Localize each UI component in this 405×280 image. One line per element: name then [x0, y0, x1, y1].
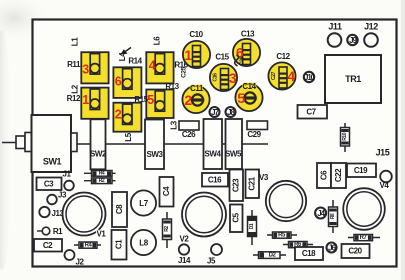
capacitor C19 [347, 164, 376, 178]
svg-text:R4: R4 [85, 242, 93, 248]
svg-text:J1: J1 [63, 170, 72, 179]
capacitor C1 [112, 230, 127, 260]
resistor R10 [341, 123, 350, 152]
pad J12 [364, 22, 378, 47]
svg-text:3: 3 [229, 70, 237, 86]
pad J14 [178, 244, 191, 265]
svg-text:R7: R7 [360, 235, 368, 241]
transistor V4 [380, 171, 392, 190]
svg-text:C22: C22 [334, 168, 343, 182]
resistor R5 [267, 232, 297, 238]
svg-text:D2: D2 [269, 252, 277, 258]
svg-text:SW1: SW1 [43, 157, 62, 167]
switch SW1 jack bushing [25, 133, 32, 152]
svg-text:C5: C5 [232, 212, 241, 222]
svg-text:L8: L8 [139, 239, 148, 248]
pad J9 [347, 35, 357, 45]
svg-text:C29: C29 [247, 130, 261, 139]
resistor R1 [37, 227, 63, 236]
pad J13 [39, 207, 64, 218]
svg-text:J5: J5 [207, 257, 216, 266]
svg-text:R15: R15 [134, 95, 148, 104]
capacitor C16 [202, 173, 228, 187]
trimmer capacitor C15 (highlight 3) [210, 64, 237, 91]
resistor R6 [283, 242, 313, 248]
trimmer capacitor C12 (highlight 4) [268, 62, 295, 89]
svg-text:C11: C11 [190, 84, 204, 93]
svg-text:C28: C28 [240, 56, 246, 65]
svg-text:J10: J10 [304, 73, 316, 82]
svg-text:3: 3 [82, 63, 89, 77]
svg-text:L3: L3 [170, 120, 179, 129]
svg-text:J3: J3 [58, 191, 67, 200]
pad J2 [65, 250, 85, 267]
coil can V3 [266, 181, 306, 221]
svg-text:SW4: SW4 [205, 150, 222, 159]
svg-text:L6: L6 [153, 36, 162, 45]
svg-text:R8: R8 [330, 213, 336, 219]
svg-text:C20: C20 [348, 247, 362, 256]
svg-text:R2: R2 [99, 178, 105, 184]
capacitor C21 [246, 170, 260, 199]
resistor R8 [329, 200, 338, 233]
capacitor C20 [342, 244, 370, 258]
coil block R13 (highlight 5) [146, 90, 173, 119]
svg-text:5: 5 [237, 90, 245, 106]
svg-text:J14: J14 [178, 256, 191, 265]
svg-text:C25: C25 [181, 66, 188, 78]
coil can (bottom right) [343, 188, 385, 230]
resistor below SW2 (lower) [84, 178, 116, 184]
transistor V1 [63, 193, 107, 239]
svg-text:L2: L2 [71, 84, 80, 93]
capacitor C23 [230, 170, 244, 202]
pad J3 [47, 191, 67, 205]
wire horizontal bus y=144 [33, 143, 268, 145]
svg-text:C3: C3 [44, 179, 54, 188]
capacitor C3 [37, 178, 62, 191]
pad J5 [207, 244, 222, 266]
svg-text:5: 5 [147, 93, 154, 107]
svg-text:C16: C16 [213, 73, 219, 82]
trimmer capacitor C11 (highlight 2) [182, 86, 209, 113]
svg-text:L5: L5 [124, 132, 133, 141]
svg-text:C16: C16 [208, 176, 222, 185]
svg-text:R1: R1 [53, 227, 63, 236]
switch SW1 body [32, 115, 72, 172]
inductor L4 label with arrow [118, 48, 131, 62]
inductor L8 [131, 230, 156, 255]
svg-text:1: 1 [82, 93, 89, 107]
svg-text:C7: C7 [306, 108, 316, 117]
switch SW1 jack lead [16, 136, 25, 149]
svg-text:C26: C26 [182, 130, 196, 139]
switch SW2 [90, 119, 107, 169]
svg-text:C12: C12 [276, 52, 290, 61]
svg-text:4: 4 [287, 68, 295, 84]
resistor R4 [74, 242, 101, 248]
capacitor C6 [317, 163, 331, 188]
pad J11 [328, 22, 342, 47]
svg-text:C6: C6 [320, 170, 329, 180]
svg-text:2: 2 [115, 108, 122, 122]
svg-text:V4: V4 [380, 181, 390, 190]
capacitor C29 [247, 121, 268, 139]
capacitor C7 [298, 105, 328, 119]
svg-text:C14: C14 [242, 82, 256, 91]
pad J8 [226, 107, 236, 117]
svg-text:C27: C27 [271, 71, 277, 80]
diode D2 [253, 252, 286, 259]
switch SW5 [225, 119, 242, 169]
resistor R2 [163, 212, 172, 248]
svg-text:R11: R11 [67, 60, 81, 69]
svg-text:J15: J15 [376, 148, 390, 158]
svg-text:1: 1 [184, 47, 192, 63]
svg-text:R2: R2 [164, 226, 170, 232]
svg-text:TR1: TR1 [345, 74, 361, 84]
transistor V2 [180, 193, 226, 244]
svg-text:2: 2 [184, 92, 192, 108]
capacitor C5 [230, 205, 243, 233]
svg-text:J11: J11 [328, 22, 342, 32]
svg-text:SW2: SW2 [90, 150, 107, 159]
pad J10 [304, 72, 316, 82]
svg-text:C4: C4 [162, 186, 171, 196]
switch SW4 [204, 119, 223, 169]
resistor below SW2 (upper) [84, 171, 116, 177]
svg-text:R12: R12 [67, 94, 81, 103]
svg-text:C23: C23 [232, 178, 241, 192]
svg-text:SW3: SW3 [147, 150, 164, 159]
pad J6 [327, 243, 337, 253]
capacitor C4 [160, 177, 174, 207]
resistor R7 [348, 235, 380, 241]
trimmer capacitor C10 (highlight 1) [183, 41, 210, 68]
coil block L5/R15 (highlight 2) [113, 103, 141, 132]
capacitor C22 [331, 163, 346, 188]
inductor L7 [131, 190, 156, 215]
svg-text:R4: R4 [99, 171, 105, 177]
svg-text:SW5: SW5 [225, 150, 242, 159]
trimmer capacitor C14 (highlight 5) [235, 84, 262, 111]
coil block L4/R14 (highlight 6) [113, 67, 141, 98]
capacitor C18 [295, 247, 323, 260]
pad J1 [63, 170, 74, 191]
coil block L2/R12 (highlight 1) [81, 88, 108, 119]
switch SW3 [145, 120, 164, 170]
svg-text:R14: R14 [128, 57, 142, 66]
svg-text:D1: D1 [249, 223, 255, 229]
capacitor C26 [179, 121, 199, 139]
svg-text:C2: C2 [43, 241, 53, 250]
svg-text:J12: J12 [364, 22, 378, 32]
capacitor C8 [112, 192, 127, 227]
svg-text:C15: C15 [215, 53, 229, 62]
wire jack lead [2, 142, 25, 144]
svg-text:R5: R5 [278, 232, 286, 238]
pad J7 [210, 107, 220, 117]
transformer TR1 [325, 55, 381, 103]
diode D1 [248, 210, 257, 245]
svg-text:L1: L1 [71, 37, 80, 46]
coil block L1/R11 (highlight 3) [81, 52, 108, 83]
jumper C28 label [235, 55, 246, 66]
svg-text:6: 6 [115, 75, 122, 89]
svg-text:V3: V3 [259, 173, 269, 182]
svg-text:C21: C21 [248, 176, 257, 190]
svg-text:C10: C10 [189, 30, 203, 39]
svg-text:R10: R10 [342, 132, 348, 141]
svg-text:V1: V1 [97, 230, 107, 239]
pad J4 [315, 208, 326, 219]
svg-text:L7: L7 [139, 199, 148, 208]
coil block L6/R16 (highlight 4) [146, 52, 173, 83]
svg-text:C19: C19 [354, 166, 368, 175]
svg-text:C13: C13 [241, 30, 255, 39]
capacitor C2 [34, 239, 62, 252]
switch SW1 right stub [71, 133, 77, 152]
svg-text:C8: C8 [115, 204, 124, 214]
trimmer capacitor C13 (highlight 6) [233, 39, 260, 66]
svg-text:J2: J2 [76, 258, 85, 267]
svg-text:C1: C1 [115, 239, 124, 249]
svg-text:V2: V2 [180, 235, 190, 244]
svg-text:C18: C18 [302, 249, 316, 258]
board outline [33, 20, 397, 267]
svg-text:4: 4 [149, 59, 156, 73]
